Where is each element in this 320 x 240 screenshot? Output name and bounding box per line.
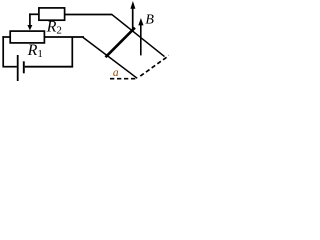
B arrow 2 shaft xyxy=(140,25,142,56)
wire top from R2 right xyxy=(65,14,113,16)
svg-text:R1: R1 xyxy=(27,42,43,60)
B arrow 1 shaft xyxy=(132,8,134,32)
battery long plate xyxy=(17,55,19,81)
wire riser up xyxy=(71,37,73,68)
svg-text:B: B xyxy=(145,12,154,27)
resistor R1 (rheostat) xyxy=(10,31,44,43)
B arrow 2 head xyxy=(138,18,143,25)
rail upper (incline top-right edge) xyxy=(112,14,165,56)
battery short plate xyxy=(23,61,25,73)
B arrow 1 head xyxy=(130,1,135,9)
svg-text:a: a xyxy=(113,67,119,79)
wire left vertical xyxy=(2,36,4,66)
wire R1 right to incline xyxy=(45,36,84,38)
dashed base horizontal xyxy=(110,78,136,80)
dashed incline right edge xyxy=(140,56,169,77)
conducting rod xyxy=(106,28,135,58)
wire wiper vertical xyxy=(29,13,31,25)
resistor R2 xyxy=(39,8,65,20)
wire R2 left to wiper corner xyxy=(29,13,38,15)
svg-text:R2: R2 xyxy=(46,19,62,37)
wire battery to riser (bottom wire) xyxy=(25,66,73,68)
rail lower (incline left edge) xyxy=(83,37,137,78)
wiper arrowhead onto R1 xyxy=(27,25,32,30)
wire R1 left xyxy=(2,36,10,38)
